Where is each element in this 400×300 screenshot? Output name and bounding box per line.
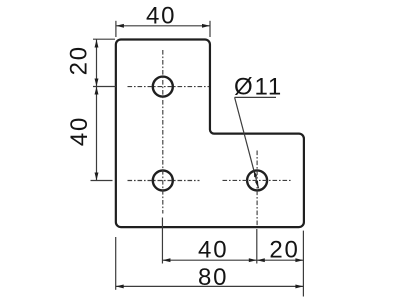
svg-text:40: 40 [198,237,228,264]
svg-text:40: 40 [66,116,93,146]
svg-text:20: 20 [269,237,299,264]
svg-text:Ø11: Ø11 [234,74,283,101]
svg-text:40: 40 [146,2,176,29]
svg-text:80: 80 [198,264,228,291]
svg-text:20: 20 [66,45,93,75]
